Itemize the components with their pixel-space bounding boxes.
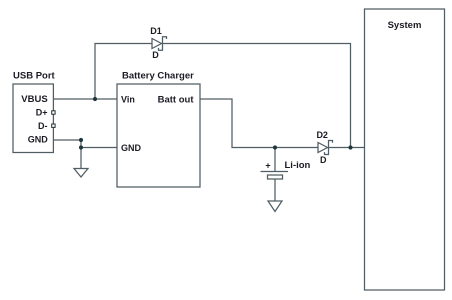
- svg-text:USB Port: USB Port: [13, 71, 56, 82]
- svg-text:D-: D-: [38, 121, 48, 131]
- svg-text:GND: GND: [121, 143, 142, 153]
- svg-text:Li-ion: Li-ion: [285, 160, 311, 171]
- svg-text:Vin: Vin: [121, 94, 135, 104]
- svg-text:D: D: [320, 155, 327, 165]
- svg-text:GND: GND: [28, 134, 49, 144]
- svg-text:VBUS: VBUS: [21, 94, 47, 105]
- svg-text:+: +: [265, 160, 270, 170]
- svg-text:D2: D2: [316, 130, 328, 140]
- svg-text:System: System: [388, 20, 422, 31]
- svg-text:D+: D+: [36, 107, 48, 117]
- svg-text:D: D: [152, 50, 159, 60]
- svg-text:Battery Charger: Battery Charger: [122, 71, 194, 82]
- svg-text:Batt out: Batt out: [158, 94, 195, 105]
- svg-text:D1: D1: [150, 26, 162, 36]
